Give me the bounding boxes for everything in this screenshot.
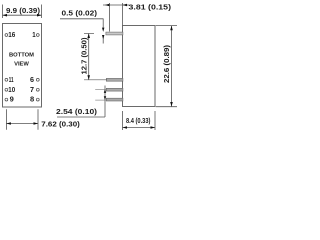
svg-text:22.6 (0.89): 22.6 (0.89) <box>162 45 171 83</box>
svg-text:9: 9 <box>10 95 14 104</box>
svg-text:BOTTOM: BOTTOM <box>9 53 34 59</box>
svg-text:7: 7 <box>30 85 34 94</box>
pin 1 <box>32 30 39 39</box>
dimension 12.7 (0.50) <box>81 34 107 80</box>
svg-text:8.4 (0.33): 8.4 (0.33) <box>126 118 151 125</box>
pin 16 <box>5 30 15 39</box>
label BOTTOM VIEW <box>9 53 34 68</box>
svg-text:16: 16 <box>8 30 15 39</box>
dimension 8.4 (0.33) body depth <box>123 111 156 130</box>
svg-text:3.81 (0.15): 3.81 (0.15) <box>129 5 172 12</box>
pin 10 <box>5 85 15 94</box>
svg-text:2.54 (0.10): 2.54 (0.10) <box>56 109 97 116</box>
svg-text:VIEW: VIEW <box>14 62 29 68</box>
lead pin7 side view <box>106 88 123 91</box>
pin 8 <box>30 95 39 104</box>
svg-text:7.62 (0.30): 7.62 (0.30) <box>41 121 80 128</box>
pin 11 <box>5 75 14 84</box>
pin 6 <box>30 75 39 84</box>
dimension 0.5 (0.02) lead thickness <box>60 10 104 43</box>
pin 9 <box>5 95 14 104</box>
lead pin8 side view <box>106 98 123 101</box>
svg-text:11: 11 <box>9 75 14 84</box>
dimension 22.6 (0.89) body height <box>156 26 177 107</box>
svg-text:12.7 (0.50): 12.7 (0.50) <box>81 38 88 75</box>
svg-text:8: 8 <box>30 95 34 104</box>
svg-text:10: 10 <box>8 85 15 94</box>
svg-text:0.5 (0.02): 0.5 (0.02) <box>62 10 98 17</box>
dimension 3.81 (0.15) lead length <box>103 3 171 32</box>
package body bottom view <box>3 24 42 108</box>
package body side view <box>123 26 156 107</box>
svg-text:6: 6 <box>30 75 34 84</box>
dimension 2.54 (0.10) lead pitch label and leader <box>56 86 106 118</box>
dimension 7.62 (0.30) pin row spacing <box>6 109 79 130</box>
lead pin6 side view <box>106 78 123 81</box>
dimension 9.9 (0.39) width <box>3 5 42 19</box>
lead pin1 side view <box>106 32 123 35</box>
svg-text:9.9 (0.39): 9.9 (0.39) <box>6 8 40 15</box>
pin 7 <box>30 85 39 94</box>
